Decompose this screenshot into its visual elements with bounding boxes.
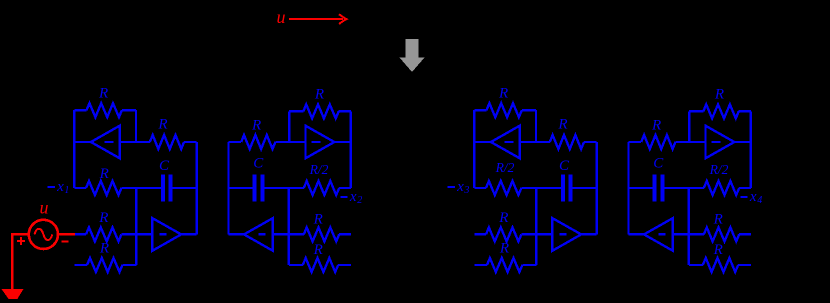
svg-text:C: C — [253, 156, 264, 172]
svg-text:u: u — [40, 198, 49, 218]
svg-text:R: R — [498, 210, 508, 226]
wire: capacitor left lead (stage 2) — [264, 187, 289, 189]
wire: integrator output vertical (stage 2) — [227, 142, 229, 234]
wire: integrator output vertical (stage 4) — [627, 142, 629, 234]
svg-text:3: 3 — [463, 185, 469, 196]
svg-text:R/2: R/2 — [709, 162, 729, 177]
svg-text:R: R — [498, 86, 508, 102]
wire: feedback loop vertical (stage 2) — [288, 111, 290, 142]
resistor R (inverter feedback, stage 2) — [339, 110, 351, 112]
svg-text:R: R — [713, 242, 723, 258]
resistor R (inverter feedback, stage 3) — [474, 109, 486, 111]
wire: inverter output (stage 3) — [474, 141, 491, 143]
gray block arrow (implementation step) — [400, 39, 425, 72]
wire: capacitor right lead (stage 3) — [573, 187, 597, 189]
svg-text:1: 1 — [64, 185, 69, 196]
resistor R (main input, stage 3) — [474, 233, 486, 235]
svg-text:R: R — [157, 117, 167, 133]
svg-text:4: 4 — [757, 195, 762, 206]
wire: capacitor right lead (stage 1) — [173, 187, 197, 189]
wire: inverter output node vertical (stage 3) — [473, 110, 475, 188]
op-amp integrator (stage 4) — [644, 218, 673, 251]
op-amp integrator (stage 2) — [244, 218, 273, 251]
wire: inverter output node vertical (stage 4) — [750, 111, 752, 188]
resistor R/2 (damping, stage 2) — [339, 187, 351, 189]
resistor R (inverter input, stage 2) — [275, 141, 305, 143]
wire: feedback loop vertical (stage 3) — [535, 110, 537, 142]
wire: capacitor right lead (stage 2) — [229, 187, 253, 189]
wire: integrator output vertical (stage 3) — [596, 142, 598, 234]
wire: integrator output (stage 2) — [229, 233, 245, 235]
svg-text:C: C — [559, 158, 570, 174]
wire: feedback loop vertical (stage 4) — [688, 111, 690, 142]
resistor R/2 (damping, stage 4) — [739, 187, 751, 189]
resistor R (damping, stage 1) — [74, 187, 86, 189]
resistor R (second input, stage 1) — [74, 264, 87, 266]
svg-text:R: R — [99, 166, 109, 182]
label + (source terminal) — [17, 237, 25, 245]
svg-text:R: R — [98, 86, 108, 102]
svg-text:R: R — [557, 117, 567, 133]
node label -x4 — [740, 196, 747, 198]
wire: capacitor left lead (stage 3) — [536, 187, 561, 189]
svg-text:R: R — [713, 212, 723, 228]
resistor R (inverter input, stage 4) — [675, 141, 705, 143]
op-amp inverter (stage 3) — [491, 126, 520, 159]
svg-text:R: R — [99, 241, 109, 257]
svg-text:C: C — [159, 158, 170, 174]
wire: inverter output (stage 4) — [734, 141, 751, 143]
node label -x1 — [48, 186, 55, 188]
wire: inverter output (stage 1) — [74, 141, 91, 143]
wire: integrator output (stage 4) — [629, 233, 645, 235]
node label -x2 — [340, 196, 347, 198]
resistor R (second input, stage 3) — [474, 264, 487, 266]
svg-text:u: u — [277, 7, 286, 27]
resistor R (main input, stage 1) — [74, 233, 86, 235]
resistor R/2 (damping, stage 3) — [474, 187, 486, 189]
wire: source output (red) — [58, 233, 75, 236]
svg-text:R: R — [313, 242, 323, 258]
resistor R (main input, stage 2) — [339, 233, 351, 235]
node label -x3 — [448, 186, 455, 188]
svg-text:R: R — [499, 241, 509, 257]
resistor R (inverter feedback, stage 4) — [739, 110, 751, 112]
svg-text:R: R — [251, 118, 261, 134]
resistor R (main input, stage 4) — [739, 233, 751, 235]
resistor R (inverter input, stage 3) — [520, 141, 550, 143]
op-amp inverter (stage 1) — [91, 126, 120, 159]
wire: inverter output (stage 2) — [334, 141, 351, 143]
svg-text:x: x — [56, 179, 64, 195]
svg-text:x: x — [349, 189, 357, 205]
AC voltage source u — [29, 220, 58, 249]
svg-text:R/2: R/2 — [309, 162, 329, 177]
wire: inverter output node vertical (stage 1) — [73, 110, 75, 188]
wire: capacitor left lead (stage 1) — [136, 187, 161, 189]
resistor R (second input, stage 2) — [338, 264, 351, 266]
wire: integrator output vertical (stage 1) — [195, 142, 197, 234]
svg-text:R/2: R/2 — [495, 160, 515, 175]
svg-text:x: x — [749, 189, 757, 205]
wire: integrator input vertical (stage 1) — [135, 188, 137, 265]
svg-text:2: 2 — [357, 195, 362, 206]
capacitor C (integrator feedback, stage 2) — [253, 175, 257, 202]
op-amp integrator (stage 3) — [552, 218, 581, 251]
wire: source to ground (red) — [12, 234, 29, 288]
op-amp inverter (stage 2) — [306, 126, 335, 159]
wire: integrator output (stage 1) — [181, 233, 197, 235]
red arrow (signal direction) — [289, 18, 343, 20]
wire: capacitor right lead (stage 4) — [629, 187, 653, 189]
wire: feedback loop vertical (stage 1) — [135, 110, 137, 142]
svg-text:R: R — [314, 86, 324, 102]
op-amp inverter (stage 4) — [706, 126, 735, 159]
wire: integrator input vertical (stage 3) — [535, 188, 537, 265]
resistor R (inverter input, stage 1) — [120, 141, 150, 143]
capacitor C (integrator feedback, stage 4) — [653, 175, 657, 202]
svg-text:R: R — [714, 86, 724, 102]
capacitor C (integrator feedback, stage 3) — [561, 175, 565, 202]
op-amp integrator (stage 1) — [152, 218, 181, 251]
resistor R (inverter feedback, stage 1) — [74, 109, 86, 111]
svg-text:R: R — [651, 118, 661, 134]
label - (source terminal) — [61, 241, 68, 243]
svg-text:x: x — [456, 179, 464, 195]
svg-text:R: R — [313, 212, 323, 228]
ground symbol — [1, 289, 23, 299]
wire: integrator input vertical (stage 4) — [688, 188, 690, 265]
wire: capacitor left lead (stage 4) — [664, 187, 689, 189]
wire: integrator output (stage 3) — [581, 233, 597, 235]
wire: inverter output node vertical (stage 2) — [350, 111, 352, 188]
svg-text:C: C — [653, 156, 664, 172]
wire: integrator input vertical (stage 2) — [288, 188, 290, 265]
capacitor C (integrator feedback, stage 1) — [161, 175, 165, 202]
resistor R (second input, stage 4) — [738, 264, 751, 266]
svg-text:R: R — [98, 210, 108, 226]
